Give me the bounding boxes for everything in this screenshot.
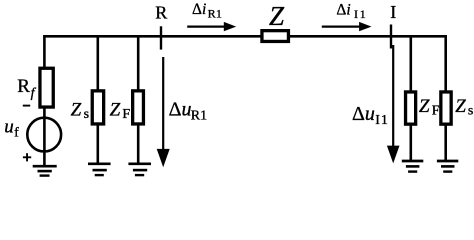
arrow delta-iR1 xyxy=(187,22,236,31)
label Rf xyxy=(17,76,36,101)
impedance Zs left xyxy=(92,91,103,124)
wire top bus xyxy=(43,35,447,38)
source uf circle xyxy=(27,118,61,152)
polarity minus xyxy=(23,105,30,107)
ground G4 xyxy=(402,161,424,172)
label delta-iR1 xyxy=(192,1,222,21)
label delta-uI1 xyxy=(352,103,389,128)
svg-text:Z: Z xyxy=(455,96,466,117)
svg-text:R1: R1 xyxy=(191,108,207,123)
label delta-iI1 xyxy=(336,1,367,21)
svg-text:F: F xyxy=(432,104,440,119)
wire ZF-right branch lower xyxy=(409,123,412,161)
svg-text:s: s xyxy=(84,107,89,122)
label ZF right xyxy=(419,96,440,119)
svg-text:I1: I1 xyxy=(354,7,368,21)
svg-text:R: R xyxy=(155,3,167,23)
svg-text:R: R xyxy=(17,76,30,97)
svg-text:I1: I1 xyxy=(375,113,389,128)
svg-text:f: f xyxy=(31,86,37,101)
svg-text:Z: Z xyxy=(110,99,121,120)
wire Zs-right branch upper xyxy=(444,35,447,93)
svg-text:Δi: Δi xyxy=(336,1,350,18)
impedance ZF left xyxy=(133,91,144,124)
arrow delta-uR1 xyxy=(157,57,170,167)
svg-text:Z: Z xyxy=(269,1,285,31)
node I tick xyxy=(390,25,392,49)
svg-text:Z: Z xyxy=(71,99,82,120)
svg-text:Δu: Δu xyxy=(169,98,192,120)
label uf xyxy=(4,117,19,141)
svg-text:Δu: Δu xyxy=(352,103,375,125)
label Zs left xyxy=(71,99,89,121)
wire ZF-left branch lower xyxy=(137,124,140,164)
ground G1 xyxy=(33,166,57,175)
arrow delta-uI1 xyxy=(387,45,400,163)
ground G3 xyxy=(128,164,151,175)
impedance Z xyxy=(262,31,289,42)
wire Zs-right branch lower xyxy=(444,123,447,161)
label delta-uR1 xyxy=(169,98,208,123)
label ZF left xyxy=(110,99,131,121)
wire left branch upper xyxy=(43,35,46,69)
polarity plus xyxy=(23,153,31,161)
impedance ZF right xyxy=(406,92,416,124)
svg-text:Δi: Δi xyxy=(192,1,206,18)
wire source branch lower xyxy=(43,107,46,167)
wire Zs-left branch upper xyxy=(97,35,100,91)
label Zs right xyxy=(455,96,473,119)
node R tick xyxy=(160,26,162,49)
svg-text:I: I xyxy=(390,2,396,22)
wire Zs-left branch lower xyxy=(97,124,100,164)
svg-text:Z: Z xyxy=(419,96,430,117)
wire ZF-right branch upper xyxy=(409,35,412,93)
resistor Rf xyxy=(40,68,53,107)
ground G5 xyxy=(437,161,458,172)
svg-text:F: F xyxy=(122,107,130,122)
svg-text:s: s xyxy=(468,104,473,119)
arrow delta-iI1 xyxy=(322,22,372,31)
impedance Zs right xyxy=(441,92,451,124)
svg-text:R1: R1 xyxy=(208,7,223,21)
svg-text:u: u xyxy=(4,117,14,138)
svg-text:f: f xyxy=(14,126,19,141)
wire ZF-left branch upper xyxy=(137,35,140,91)
ground G2 xyxy=(88,164,111,175)
